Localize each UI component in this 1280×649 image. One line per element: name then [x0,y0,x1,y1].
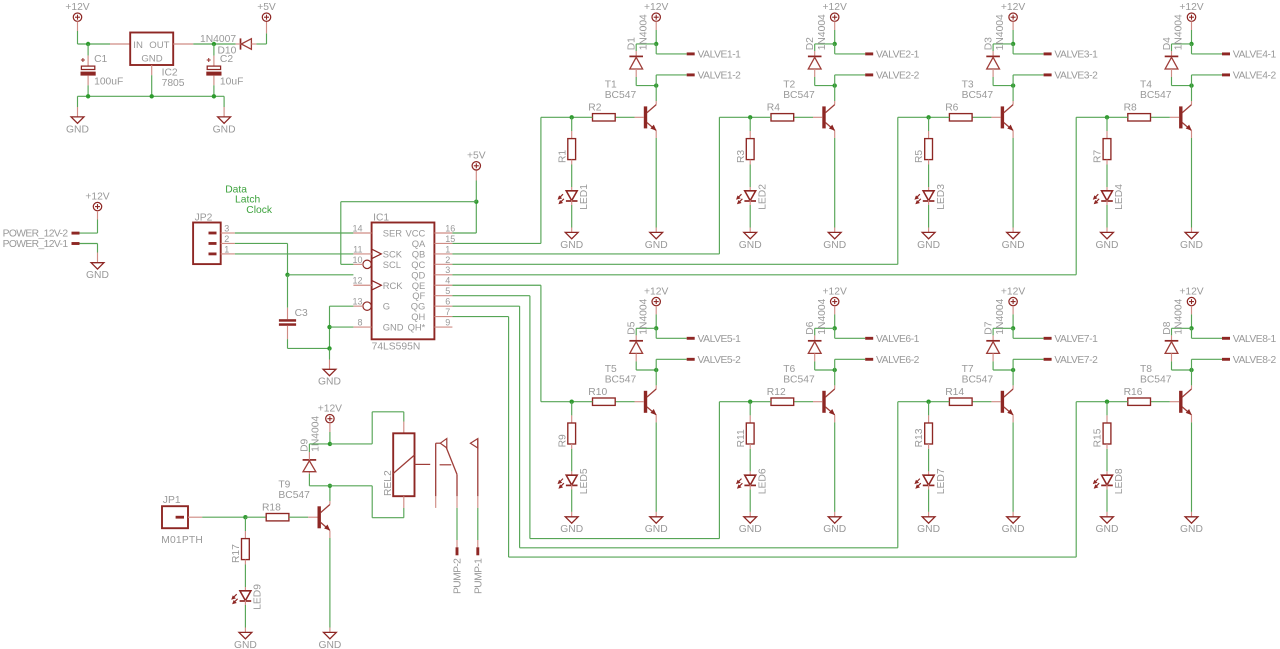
wire [992,361,994,370]
wire [245,516,266,518]
svg-text:VALVE5-2: VALVE5-2 [698,355,742,366]
wire [635,328,637,335]
wire [87,76,89,86]
svg-text:R18: R18 [262,502,281,513]
wire [456,540,458,547]
wire [1191,101,1193,105]
ground [560,232,583,250]
svg-text:RCK: RCK [383,280,404,291]
wire [992,69,994,77]
svg-text:R4: R4 [767,102,780,113]
LED LED2 [736,184,768,210]
wire [814,353,816,361]
resistor R17 [231,539,249,563]
wire [329,538,331,628]
junction [1189,368,1193,372]
wire [287,339,289,348]
wire [834,44,836,54]
junction [1105,115,1109,119]
junction [1011,326,1015,330]
wire [329,531,331,538]
svg-text:Latch: Latch [235,195,260,206]
svg-text:QA: QA [412,238,426,249]
power +12V supply [1179,287,1203,306]
wire [223,107,225,117]
svg-text:GND: GND [645,524,668,535]
wire QB net [718,117,720,254]
wire QH net [508,317,510,557]
wire [929,116,950,118]
wire [749,131,751,139]
wire [1106,449,1108,472]
wire [87,44,89,56]
svg-text:+12V: +12V [823,2,847,13]
wire [329,486,331,501]
svg-text:R10: R10 [588,387,607,398]
wire [835,53,866,55]
wire [834,422,836,512]
svg-text:G: G [383,301,390,312]
wire [655,75,657,86]
wire [287,275,289,308]
junction [474,200,478,204]
wire [814,51,816,56]
wire [1191,131,1193,138]
svg-text:POWER_12V-1: POWER_12V-1 [3,239,69,250]
wire [571,485,573,490]
svg-text:QH: QH [411,311,425,322]
wire [834,86,836,101]
wire [1107,116,1128,118]
wire [928,449,930,472]
diode D2 [805,14,828,69]
svg-text:SCL: SCL [383,259,401,270]
wire [749,205,751,228]
wire [834,30,836,44]
wire [815,43,835,45]
wire [477,508,479,540]
svg-text:3: 3 [224,223,229,233]
LED LED1 [558,184,590,210]
junction [212,42,216,46]
wire QE net [540,285,542,401]
wire [615,116,634,118]
resistor R18 [262,502,289,521]
wire [1012,131,1014,138]
power +12V supply [85,192,109,211]
wire [992,353,994,361]
wire [213,44,215,56]
svg-text:1N4007: 1N4007 [200,34,236,45]
wire [1106,117,1108,131]
wire [1192,53,1223,55]
svg-text:2: 2 [224,234,229,244]
svg-text:D1: D1 [627,37,638,50]
node PUMP-2 [453,547,464,594]
diode D8 [1162,298,1185,353]
svg-text:LED5: LED5 [579,468,590,494]
wire [1191,512,1193,517]
wire [97,220,99,234]
svg-text:GND: GND [213,124,236,135]
resistor R15 [1093,423,1111,447]
wire [477,540,479,547]
wire [1106,200,1108,205]
wire [244,531,246,539]
relay link [440,464,452,466]
wire [655,228,657,233]
wire [1171,361,1173,370]
power +12V supply [644,287,668,306]
svg-text:2: 2 [445,255,450,265]
wire [1012,138,1014,228]
wire [655,422,657,512]
svg-text:REL2: REL2 [383,470,394,496]
junction [833,83,837,87]
wire [1172,327,1192,329]
wire [928,512,930,517]
wire Data net [235,232,354,234]
node VALVE8-1 [1222,334,1276,345]
relay link [415,463,431,465]
wire [80,243,98,245]
wire [1191,228,1193,233]
wire [1106,471,1108,475]
power +12V supply [318,404,342,423]
wire [1170,116,1179,118]
wire [928,165,930,188]
connector JP2 [193,212,235,264]
wire [992,51,994,56]
power +12V supply [65,2,89,21]
svg-text:BC547: BC547 [278,490,310,501]
svg-text:SER: SER [383,228,403,239]
svg-text:R16: R16 [1124,387,1143,398]
ground [1096,517,1119,535]
resistor R5 [914,139,932,163]
relay coil REL2 [383,433,415,496]
wire [341,201,477,203]
wire [477,496,479,508]
ground [823,232,846,250]
wire [635,335,637,340]
svg-text:13: 13 [352,297,362,307]
svg-text:QG: QG [411,301,426,312]
svg-text:LED1: LED1 [579,184,590,210]
wire [329,360,331,370]
relay contact [436,439,457,497]
wire [813,116,822,118]
svg-text:R17: R17 [231,544,242,563]
wire [993,369,1013,371]
ground [234,632,257,649]
wire [1012,415,1014,422]
svg-text:T8: T8 [1140,364,1152,375]
wire [794,401,813,403]
svg-text:LED6: LED6 [757,468,768,494]
wire QG net [898,401,929,403]
wire [403,412,405,422]
svg-text:GND: GND [1096,524,1119,535]
wire [928,415,930,423]
LED LED7 [914,468,946,494]
svg-text:VALVE7-2: VALVE7-2 [1054,355,1098,366]
transistor T2 [783,80,835,131]
wire QF net [719,401,750,403]
svg-text:LED7: LED7 [936,468,947,494]
wire [1191,86,1193,101]
wire Latch net [235,242,288,244]
wire [814,328,816,335]
wire [749,471,751,475]
capacitor C3 [279,308,308,326]
wire [749,165,751,188]
transistor T4 [1140,80,1192,131]
wire [371,412,373,444]
svg-text:14: 14 [352,223,362,233]
svg-text:15: 15 [445,234,455,244]
wire [287,243,289,274]
wire [928,471,930,475]
node VALVE1-1 [687,50,741,61]
ground [318,632,341,649]
svg-text:D7: D7 [984,321,995,334]
svg-text:JP2: JP2 [195,212,213,223]
wire [1106,205,1108,228]
wire [1106,512,1108,517]
wire QH net [452,316,508,318]
wire [97,211,99,220]
wire [202,516,245,518]
svg-text:GND: GND [318,377,341,388]
wire [993,43,1013,45]
resistor R7 [1093,139,1111,163]
junction [1189,42,1193,46]
wire [1107,401,1128,403]
wire [97,244,99,253]
wire [1171,44,1173,51]
wire [1012,359,1014,370]
resistor R14 [945,387,972,406]
wire [188,516,202,518]
wire [750,401,771,403]
wire [330,443,372,445]
wire [655,306,657,315]
svg-text:T1: T1 [605,80,617,91]
junction [327,325,331,329]
svg-text:GND: GND [318,640,341,649]
resistor R13 [914,423,932,447]
svg-text:PUMP-1: PUMP-1 [473,558,484,594]
wire [656,337,687,339]
wire QB net [719,116,750,118]
svg-text:R12: R12 [767,387,786,398]
wire [655,328,657,338]
wire [972,116,991,118]
svg-text:C3: C3 [295,308,308,319]
wire [794,116,813,118]
ground [213,117,236,135]
transistor T6 [783,364,835,415]
svg-text:6: 6 [445,297,450,307]
wire [236,43,241,45]
resistor R11 [736,423,754,447]
capacitor C2 [206,54,243,87]
wire [571,444,573,449]
svg-text:+5V: +5V [257,2,276,13]
svg-text:VALVE1-1: VALVE1-1 [698,50,742,61]
wire [287,326,289,339]
wire [452,232,476,234]
svg-text:QD: QD [411,269,425,280]
svg-text:1: 1 [445,244,450,254]
junction [86,42,90,46]
wire QA net [541,116,572,118]
svg-text:GND: GND [917,524,940,535]
wire [636,369,656,371]
node VALVE2-1 [865,50,919,61]
svg-text:Clock: Clock [246,205,273,216]
svg-text:T9: T9 [278,479,290,490]
svg-text:1N4004: 1N4004 [638,14,649,50]
wire [1106,187,1108,191]
junction [150,94,154,98]
svg-text:D2: D2 [805,37,816,50]
wire [330,485,372,487]
node VALVE2-2 [865,71,919,82]
LED LED8 [1093,468,1125,494]
wire [834,131,836,138]
wire [571,449,573,472]
ground [66,117,89,135]
wire [77,107,79,117]
power +12V supply [1001,2,1025,21]
wire [1012,228,1014,233]
wire [928,205,930,228]
svg-text:POWER_12V-2: POWER_12V-2 [3,229,69,240]
svg-text:+5V: +5V [467,151,486,162]
svg-text:T7: T7 [962,364,974,375]
svg-text:D6: D6 [805,321,816,334]
diode D5 [627,298,650,353]
svg-text:VALVE8-1: VALVE8-1 [1233,334,1277,345]
diode D4 [1162,14,1185,69]
wire [330,305,354,307]
wire [403,496,405,508]
wire [1191,21,1193,30]
wire [834,359,836,370]
wire [1191,359,1193,370]
junction [654,42,658,46]
wire [1192,74,1223,76]
transistor T9 [278,479,330,530]
wire [1191,75,1193,86]
wire GND rail [78,95,225,97]
wire [656,358,687,360]
junction [1011,42,1015,46]
ground [86,263,109,281]
svg-text:10uF: 10uF [220,76,243,87]
svg-text:VALVE8-2: VALVE8-2 [1233,355,1277,366]
wire [749,415,751,423]
wire [1012,30,1014,44]
wire [288,274,354,276]
svg-text:8: 8 [357,317,362,327]
svg-text:VALVE2-1: VALVE2-1 [876,50,920,61]
wire QA net [452,242,541,244]
wire [308,452,310,460]
ground [739,517,762,535]
wire [475,202,477,233]
wire [571,489,573,512]
wire QE net [541,401,572,403]
wire QF net [718,402,720,539]
wire [1013,358,1044,360]
wire [1191,385,1193,389]
wire [1192,358,1223,360]
wire [655,385,657,389]
svg-text:GND: GND [917,240,940,251]
wire QH net [1076,401,1107,403]
wire [244,628,246,633]
wire QF net [530,538,720,540]
wire [223,96,225,107]
relay contact [470,439,477,497]
svg-text:T2: T2 [783,80,795,91]
wire [655,359,657,370]
svg-text:D3: D3 [984,37,995,50]
svg-text:GND: GND [1096,240,1119,251]
junction [833,326,837,330]
svg-text:1N4004: 1N4004 [817,298,828,334]
svg-text:GND: GND [66,124,89,135]
junction [1105,400,1109,404]
wire [1191,30,1193,44]
transistor T7 [962,364,1014,415]
wire [749,160,751,165]
wire QG net [519,306,521,548]
svg-text:R9: R9 [557,434,568,447]
wire [288,347,330,349]
wire [655,131,657,138]
wire [456,508,458,540]
svg-text:GND: GND [739,524,762,535]
wire [834,328,836,338]
wire [834,228,836,233]
power +12V supply [1179,2,1203,21]
wire [992,328,994,335]
svg-text:VALVE7-1: VALVE7-1 [1054,334,1098,345]
wire [1191,314,1193,328]
wire QD net [452,274,1076,276]
wire [77,96,79,107]
wire [749,444,751,449]
node VALVE4-1 [1222,50,1276,61]
wire [330,326,354,328]
wire [329,501,331,505]
wire [1012,306,1014,315]
wire [749,512,751,517]
wire [1012,385,1014,389]
node VALVE7-2 [1044,355,1098,366]
wire [814,69,816,77]
svg-text:JP1: JP1 [163,495,181,506]
svg-text:1N4004: 1N4004 [1174,14,1185,50]
svg-text:GND: GND [234,640,257,649]
wire [289,516,308,518]
wire [834,385,836,389]
junction [926,115,930,119]
